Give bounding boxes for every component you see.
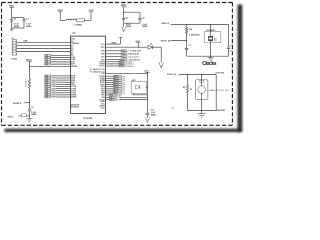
net label CT1 [45,83,51,85]
wire SIN1 to crystal [171,24,229,26]
wire [106,90,114,92]
page drop shadow right [238,5,243,132]
svg-text:C5: C5 [126,17,128,19]
net label CT4 [45,90,51,92]
wire [106,94,110,96]
net label RX3 [45,79,51,81]
wire [17,48,70,50]
net label CT2 [45,86,51,88]
svg-text:VCC: VCC [101,107,106,109]
ground [201,111,203,114]
svg-text:LMB: LMB [23,41,28,43]
svg-text:+5VA: +5VA [120,4,126,7]
ground [210,56,212,58]
wire [56,79,70,81]
wire [51,61,70,63]
svg-text:TXC1: TXC1 [121,56,125,58]
svg-text:Cut Out 12: Cut Out 12 [128,56,139,59]
wire [56,77,70,79]
svg-text:Cut Out 1: Cut Out 1 [126,65,134,68]
svg-text:SC/XBATL: SC/XBATL [206,29,216,32]
wire [12,27,24,29]
svg-text:D1: D1 [150,44,152,46]
inductor L1 [66,19,76,20]
wire [106,65,119,67]
crystal X1 [210,25,212,37]
net label CT3 [45,88,51,90]
wire [18,115,21,117]
svg-text:SMALLOPTION_INCL: SMALLOPTION_INCL [209,89,230,92]
svg-text:XTAL1 (2): XTAL1 (2) [167,73,177,76]
wire [11,7,13,17]
svg-text:CH 1234 OUT: CH 1234 OUT [128,50,141,53]
svg-text:(SMD): (SMD) [151,115,157,117]
svg-text:SIN1 (2): SIN1 (2) [161,23,169,25]
resistor R9 [187,75,189,85]
wire [124,22,140,24]
wire [17,41,70,43]
svg-text:X1: X1 [171,108,173,110]
wire [120,99,148,101]
net label LD3 [45,61,51,63]
wire [215,75,217,111]
wire [56,94,70,96]
svg-text:MODSEL: MODSEL [71,107,80,109]
ground [27,117,33,119]
wire INT row to +5V5 pullup [106,72,148,74]
svg-text:C11: C11 [151,110,154,112]
net label RX4 [45,81,51,83]
ground [11,28,13,30]
svg-text:R9: R9 [183,87,185,89]
resistor R4 [186,25,188,28]
wire (osc2 bottom rail) [188,110,217,112]
net label LD2 [45,59,51,61]
wire [51,63,70,65]
wire [56,90,70,92]
capacitor C5 [122,18,126,20]
wire [152,46,161,48]
svg-text:Iq1: Iq1 [123,93,125,95]
wire [106,53,121,55]
net label DS2 [45,94,51,96]
svg-text:CON4: CON4 [11,57,18,60]
resistor R3 (series box) [22,114,27,117]
wire [106,84,114,86]
net label RX2 [45,77,51,79]
wire [12,17,24,19]
wire [106,96,110,98]
wire [56,75,70,77]
svg-text:TXC: TXC [101,56,105,58]
wire [106,88,114,90]
svg-text:SOUT1 (2): SOUT1 (2) [161,41,171,43]
wire (osc bottom rail) [187,55,229,57]
resistor R2 [28,79,30,88]
wire RST row [106,46,148,48]
svg-text:RESET: RESET [71,66,78,68]
wire [106,86,114,88]
ground (arrow) [122,27,126,32]
wire [106,77,114,79]
svg-text:DS3: DS3 [45,97,48,99]
net label RX1 [45,75,51,77]
wire [106,82,114,84]
net label DS1 [45,92,51,94]
wire [17,51,70,53]
svg-text:Clocks: Clocks [202,61,216,67]
wire [56,96,70,98]
wire [132,93,134,95]
wire [56,83,70,85]
svg-text:(SMD): (SMD) [142,26,148,28]
svg-text:L1 BEAD: L1 BEAD [74,24,83,27]
net label DS3 [45,96,51,98]
svg-text:C7: C7 [188,45,190,47]
wire [56,86,70,88]
svg-text:C8: C8 [231,45,233,47]
wire [29,61,31,79]
capacitor C2 [11,18,13,20]
svg-text:RTS3: RTS3 [119,66,123,68]
capacitor C6 [138,18,142,20]
wire [124,11,140,13]
wire [85,19,92,21]
svg-text:AGND K: AGND K [13,102,22,105]
svg-text:VCC: VCC [101,44,106,46]
wire [56,92,70,94]
svg-text:TXB: TXB [101,54,105,56]
svg-text:TXB1: TXB1 [121,54,125,56]
svg-text:R2 10K: R2 10K [26,79,28,86]
svg-text:C9: C9 [31,107,33,109]
wire [146,86,147,88]
svg-text:XTL2: XTL2 [110,99,114,101]
capacitor C8 [228,25,230,47]
wire [106,79,114,81]
wire [26,102,30,104]
wire [17,44,70,46]
svg-text:(SMD): (SMD) [31,114,37,116]
wire [106,75,114,77]
net label LA0 [45,63,51,65]
wire [51,59,70,61]
wire [106,99,110,101]
wire [106,92,114,94]
svg-text:C1: C1 [26,19,28,21]
svg-text:TL16C554: TL16C554 [83,117,93,120]
svg-text:CLK0/M: CLK0/M [217,110,225,112]
net label LD0 [45,54,51,56]
wire (vertical rail x=147.4) [146,72,148,113]
resistor pack RP1 box [131,81,146,93]
wire [120,96,148,98]
wire [51,54,70,56]
svg-text:1.8432MHZ: 1.8432MHZ [189,33,200,36]
wire to IC [30,65,71,67]
wire [123,7,125,19]
wire [56,88,70,90]
svg-text:TXA: TXA [101,50,105,53]
svg-text:OSC1/M: OSC1/M [215,73,224,75]
page drop shadow bottom [5,129,242,132]
wire [106,50,121,52]
wire [59,12,61,20]
wire XTAL1 [179,74,217,76]
svg-text:RS232 A IN: RS232 A IN [128,53,139,56]
wire [106,59,121,61]
svg-text:(SMD): (SMD) [26,26,32,28]
ground (arrow) [145,118,149,123]
svg-text:C6: C6 [142,17,144,19]
wire [106,61,119,63]
power wire VDD5 (U1 pin) [106,43,121,45]
oscillator X2 [201,75,203,86]
capacitor C1 [23,18,25,20]
wire SOUT1 [171,40,187,42]
wire [56,81,70,83]
wire [29,88,31,109]
wire [51,57,70,59]
net label LD1 [45,57,51,59]
svg-text:VDD5: VDD5 [111,43,116,45]
svg-text:C2: C2 [14,19,16,21]
svg-text:RP1: RP1 [132,80,136,82]
ground (arrow) [159,62,164,68]
svg-text:(SMD): (SMD) [126,26,132,28]
svg-text:SHLD: SHLD [7,117,13,119]
sheet dashed border [1,2,233,126]
wire [106,56,121,58]
wire [186,33,188,48]
svg-text:X2: X2 [190,89,192,91]
svg-text:DSRB: DSRB [71,97,77,99]
wire [106,63,119,65]
svg-text:RTSC: RTSC [100,66,106,68]
option box around X1 [204,32,221,43]
